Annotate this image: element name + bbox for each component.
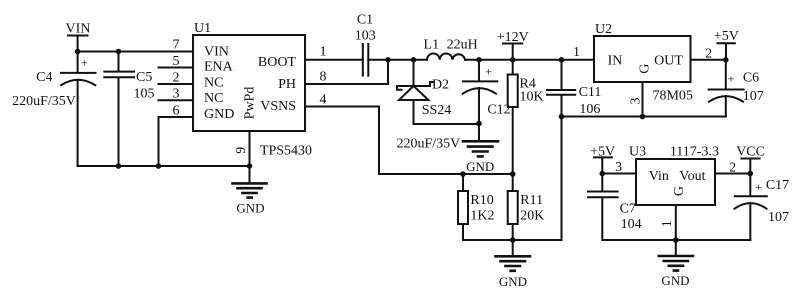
node U3 G/GND3	[673, 237, 679, 243]
svg-text:C1: C1	[357, 12, 373, 27]
svg-text:107: 107	[743, 89, 764, 104]
power flag +5V (top)	[714, 29, 739, 60]
svg-text:OUT: OUT	[654, 53, 683, 68]
svg-text:C7: C7	[620, 202, 636, 217]
svg-text:220uF/35V: 220uF/35V	[397, 137, 461, 152]
svg-text:GND: GND	[499, 274, 527, 289]
wire U2 OUT to C6 node	[691, 59, 726, 61]
regulator U3 1117-3.3 body	[629, 144, 719, 205]
svg-text:104: 104	[621, 217, 642, 232]
node C11 bottom junction	[559, 114, 565, 120]
svg-text:2: 2	[173, 70, 180, 85]
node pin9/GND	[247, 163, 253, 169]
svg-text:SS24: SS24	[422, 103, 452, 118]
wire VIN rail to U1 pin7	[78, 51, 193, 53]
node C11 top	[559, 57, 565, 63]
wire U1 pin5 stub	[159, 67, 194, 69]
wire U2 pin3 to ground net	[642, 82, 644, 117]
node PH bootstrap junction	[385, 57, 391, 63]
svg-text:GND: GND	[204, 107, 234, 122]
power flag +5V (bottom left of U3)	[590, 144, 615, 173]
svg-text:C5: C5	[136, 70, 152, 85]
svg-text:20K: 20K	[520, 208, 544, 223]
node R11 bottom	[510, 237, 516, 243]
svg-text:NC: NC	[204, 75, 223, 90]
svg-text:5: 5	[173, 54, 180, 69]
node D2/C12 ground junction	[476, 121, 482, 127]
wire U1 pin3 stub	[159, 99, 194, 101]
node VIN/C4 junction	[75, 49, 81, 55]
svg-text:U1: U1	[194, 21, 211, 36]
wire +5V to U3 Vin	[602, 173, 636, 175]
power flag +12V	[497, 30, 529, 60]
svg-text:G: G	[638, 64, 653, 74]
wire C1 to L1 (PH node)	[368, 59, 427, 61]
svg-text:3: 3	[615, 160, 622, 175]
svg-text:C6: C6	[743, 71, 759, 86]
wire ground net C11 to C6	[562, 116, 726, 118]
svg-text:106: 106	[579, 102, 600, 117]
svg-text:C17: C17	[766, 178, 789, 193]
svg-text:C11: C11	[579, 85, 602, 100]
svg-text:3: 3	[173, 87, 180, 102]
svg-text:Vout: Vout	[679, 169, 705, 184]
wire U3 G pin to rail	[675, 205, 677, 240]
svg-text:22uH: 22uH	[447, 38, 478, 53]
resistor R11 20K	[508, 174, 545, 240]
wire U3 Vout to VCC node	[715, 173, 750, 175]
resistor R4 10K	[508, 60, 544, 174]
capacitor C12	[397, 60, 511, 152]
svg-text:IN: IN	[608, 53, 623, 68]
node +12V/R4	[510, 57, 516, 63]
diode D2 SS24 schottky	[397, 60, 451, 124]
power flag VCC	[736, 145, 765, 174]
wire bottom-left ground rail	[78, 165, 250, 167]
op-amp U1 TPS5430 body	[193, 21, 312, 159]
node VCC/C17 junction	[748, 171, 754, 177]
svg-text:107: 107	[768, 210, 789, 225]
svg-text:8: 8	[320, 70, 327, 85]
svg-text:VSNS: VSNS	[260, 99, 296, 114]
svg-text:+: +	[485, 65, 492, 79]
wire D2 anode to C12 ground	[414, 123, 480, 125]
svg-text:+: +	[728, 72, 735, 86]
svg-text:1: 1	[660, 220, 675, 227]
node pin6 drop	[156, 163, 162, 169]
wire U1 pin6 GND to rail	[159, 117, 194, 166]
node +5V/C7/U3 junction	[600, 171, 606, 177]
regulator U2 78M05 body	[594, 22, 693, 103]
svg-text:1117-3.3: 1117-3.3	[670, 144, 719, 159]
svg-text:10K: 10K	[520, 89, 544, 104]
svg-text:GND: GND	[661, 273, 689, 288]
svg-text:4: 4	[320, 93, 327, 108]
svg-text:1: 1	[320, 44, 327, 59]
node U2 pin3 junction	[640, 114, 646, 120]
svg-text:C4: C4	[36, 70, 52, 85]
svg-text:+: +	[755, 180, 762, 194]
capacitor C11	[547, 60, 601, 117]
wire U1 pin1 BOOT to C1	[305, 59, 363, 61]
svg-text:TPS5430: TPS5430	[260, 144, 312, 159]
capacitor C6	[709, 60, 764, 117]
capacitor C7	[588, 174, 642, 241]
capacitor C4	[12, 52, 95, 167]
svg-text:PwPd: PwPd	[242, 87, 257, 120]
svg-text:9: 9	[234, 147, 249, 154]
net label VIN	[66, 22, 91, 52]
wire L1 to U2 IN	[465, 59, 594, 61]
svg-text:VIN: VIN	[204, 44, 229, 59]
svg-text:U2: U2	[595, 22, 612, 37]
ground GND3 below U3	[659, 240, 693, 288]
capacitor C17	[735, 174, 790, 241]
wire bottom middle ground rail	[463, 117, 562, 241]
node R4/R11 junction	[510, 171, 516, 177]
svg-text:G: G	[672, 186, 687, 196]
svg-text:R11: R11	[520, 193, 543, 208]
svg-text:U3: U3	[629, 144, 646, 159]
svg-text:PH: PH	[278, 77, 296, 92]
node C5 bottom	[116, 163, 122, 169]
svg-text:1K2: 1K2	[470, 208, 494, 223]
svg-text:220uF/35V: 220uF/35V	[12, 94, 76, 109]
capacitor C1	[355, 12, 376, 75]
svg-text:GND: GND	[466, 159, 494, 174]
svg-text:6: 6	[173, 103, 180, 118]
wire bottom right ground rail	[602, 239, 750, 241]
svg-text:D2: D2	[432, 78, 449, 93]
svg-text:R10: R10	[470, 193, 493, 208]
svg-text:+5V: +5V	[714, 29, 739, 44]
svg-text:ENA: ENA	[204, 60, 234, 75]
wire U1 pin4 VSNS feedback	[305, 107, 513, 175]
node D2 top junction	[411, 57, 417, 63]
resistor R10 1K2	[458, 174, 495, 240]
node C6/+5V junction	[723, 57, 729, 63]
svg-text:VCC: VCC	[736, 145, 765, 160]
svg-text:3: 3	[629, 98, 644, 105]
node C5 top junction	[116, 49, 122, 55]
svg-text:Vin: Vin	[649, 169, 669, 184]
svg-text:L1: L1	[424, 38, 440, 53]
svg-text:105: 105	[134, 87, 155, 102]
ground GND2 below R11	[496, 240, 531, 289]
svg-text:NC: NC	[204, 91, 223, 106]
capacitor C5	[104, 52, 154, 167]
svg-text:VIN: VIN	[66, 22, 91, 37]
svg-text:2: 2	[729, 161, 736, 176]
node C12 top	[476, 57, 482, 63]
svg-text:78M05: 78M05	[652, 88, 692, 103]
svg-text:1: 1	[573, 45, 580, 60]
wire PH pin drop	[305, 60, 388, 84]
svg-text:103: 103	[355, 29, 376, 44]
ground GND4 below C12	[463, 141, 498, 174]
wire U1 pin9 to ground rail	[249, 131, 251, 166]
ground GND1 below U1	[233, 166, 267, 216]
node R10 top	[460, 171, 466, 177]
svg-text:+: +	[81, 56, 88, 70]
svg-text:GND: GND	[236, 201, 264, 216]
svg-text:BOOT: BOOT	[258, 55, 297, 70]
inductor L1 22uH	[424, 38, 478, 60]
svg-text:7: 7	[173, 38, 180, 53]
wire U1 pin2 stub	[159, 83, 194, 85]
